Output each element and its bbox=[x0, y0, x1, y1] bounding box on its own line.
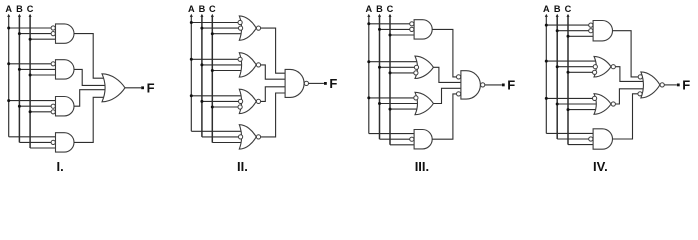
input B arrowhead (panel II) bbox=[200, 14, 203, 17]
junction B tap for II-G2 bbox=[200, 63, 203, 66]
wire B to gate III-G4 input 2 bbox=[380, 138, 410, 140]
input C arrowhead (panel III) bbox=[389, 14, 392, 17]
wire C to gate IV-G3 input 3 bbox=[568, 109, 596, 111]
svg-text:F: F bbox=[147, 80, 155, 95]
wire C to gate II-G4 input 3 bbox=[212, 142, 241, 144]
inverter bubble II-G2 output bbox=[256, 63, 260, 67]
wire final output to F (panel III) bbox=[485, 84, 502, 86]
wire IV-G4 output to final gate input 4 bbox=[613, 94, 640, 139]
wire I-G2 output to final gate input 2 bbox=[74, 69, 105, 85]
gate II-G1 (NOR, 3-input) bbox=[239, 16, 256, 40]
wire C to gate I-G4 input 3 bbox=[30, 147, 55, 149]
junction C tap for I-G3 bbox=[29, 110, 32, 113]
svg-text:A: A bbox=[5, 4, 12, 14]
junction B tap for I-G3 bbox=[18, 105, 21, 108]
inverter bubble II-G1 input 1 bbox=[238, 20, 242, 24]
svg-text:B: B bbox=[554, 4, 561, 14]
wire III-G4 output to final gate input 4 bbox=[432, 94, 456, 139]
gate IV-G1 (AND, 3-input) bbox=[593, 21, 612, 41]
wire B to gate IV-G2 input 2 bbox=[557, 66, 593, 68]
wire C to gate II-G2 input 3 bbox=[212, 70, 241, 72]
svg-text:A: A bbox=[365, 4, 372, 14]
junction B tap for II-G3 bbox=[200, 100, 203, 103]
wire C to gate IV-G4 input 3 bbox=[568, 144, 593, 146]
inverter bubble III-G5 input 1 bbox=[457, 75, 461, 79]
inverter bubble II-G3 output bbox=[256, 99, 260, 103]
junction A tap for II-G3 bbox=[190, 94, 193, 97]
junction A tap for IV-G1 bbox=[545, 24, 548, 27]
wire B vertical rail (panel II) bbox=[201, 15, 203, 137]
wire C to gate II-G1 input 3 bbox=[212, 33, 241, 35]
svg-text:F: F bbox=[329, 76, 337, 91]
input B arrowhead (panel IV) bbox=[556, 14, 559, 17]
svg-text:IV.: IV. bbox=[593, 159, 608, 174]
wire B to gate II-G2 input 2 bbox=[202, 64, 242, 66]
input C arrowhead (panel IV) bbox=[567, 14, 570, 17]
wire III-G3 output to final gate input 3 bbox=[433, 88, 461, 103]
wire A to gate I-G4 input 1 bbox=[9, 136, 56, 138]
wire A to gate II-G1 input 1 bbox=[191, 22, 238, 24]
junction C tap for III-G2 bbox=[389, 71, 392, 74]
wire B to gate III-G3 input 2 bbox=[380, 103, 418, 105]
junction B tap for III-G3 bbox=[378, 102, 381, 105]
junction C tap for II-G2 bbox=[211, 69, 214, 72]
svg-text:A: A bbox=[543, 4, 550, 14]
svg-text:C: C bbox=[27, 4, 34, 14]
gate III-G3 (OR, 3-input) bbox=[415, 92, 433, 114]
svg-text:C: C bbox=[209, 4, 216, 14]
inverter bubble III-G5 output bbox=[481, 83, 485, 87]
junction A tap for IV-G3 bbox=[545, 97, 548, 100]
wire II-G4 output to final gate input 4 bbox=[261, 93, 285, 137]
svg-text:A: A bbox=[188, 4, 195, 14]
wire C to gate IV-G2 input 3 bbox=[568, 71, 593, 73]
wire A to gate I-G3 input 1 bbox=[9, 100, 56, 102]
svg-text:C: C bbox=[387, 4, 394, 14]
junction A tap for IV-G2 bbox=[545, 60, 548, 63]
gate I-G3 (AND, 3-input) bbox=[56, 97, 75, 116]
wire B to gate I-G3 input 2 bbox=[19, 105, 51, 107]
inverter bubble IV-G1 input 2 bbox=[589, 29, 593, 33]
inverter bubble III-G1 input 1 bbox=[410, 22, 414, 26]
gate III-G1 (AND, 3-input) bbox=[414, 20, 432, 39]
wire IV-G2 output to final gate input 2 bbox=[616, 67, 644, 82]
input B arrowhead (panel III) bbox=[378, 14, 381, 17]
inverter bubble IV-G2 output bbox=[611, 65, 615, 69]
junction C tap for IV-G2 bbox=[567, 71, 570, 74]
gate II-G4 (NOR, 3-input) bbox=[239, 125, 256, 149]
wire A vertical rail (panel III) bbox=[368, 15, 370, 134]
inverter bubble I-G1 input 2 bbox=[51, 31, 55, 35]
junction C tap for I-G1 bbox=[29, 38, 32, 41]
wire B to gate I-G4 input 2 bbox=[19, 141, 51, 143]
inverter bubble IV-G5 input 1 bbox=[638, 75, 642, 79]
junction A tap for II-G2 bbox=[190, 58, 193, 61]
gate II-G2 (NOR, 3-input) bbox=[239, 53, 256, 77]
junction A tap for II-G1 bbox=[190, 21, 193, 24]
input A arrowhead (panel II) bbox=[190, 14, 193, 17]
inverter bubble II-G3 input 3 bbox=[238, 105, 242, 109]
inverter bubble I-G2 input 1 bbox=[51, 62, 55, 66]
junction B tap for I-G1 bbox=[18, 32, 21, 35]
junction A tap for I-G1 bbox=[7, 27, 10, 30]
inverter bubble I-G1 input 1 bbox=[51, 26, 55, 30]
wire A vertical rail (panel II) bbox=[190, 15, 192, 131]
junction C tap for II-G3 bbox=[211, 106, 214, 109]
svg-text:III.: III. bbox=[415, 159, 429, 174]
inverter bubble III-G5 input 4 bbox=[457, 92, 461, 96]
inverter bubble I-G3 input 3 bbox=[51, 110, 55, 114]
wire C to gate III-G2 input 3 bbox=[390, 72, 414, 74]
gate II-G3 (NOR, 3-input) bbox=[239, 89, 256, 113]
wire A to gate III-G3 input 1 bbox=[369, 97, 414, 99]
inverter bubble I-G4 input 2 bbox=[51, 140, 55, 144]
wire IV-G3 output to final gate input 3 bbox=[616, 89, 644, 104]
wire final output to F (panel II) bbox=[309, 82, 324, 84]
input A arrowhead (panel I) bbox=[7, 14, 10, 17]
wire A to gate IV-G4 input 1 bbox=[546, 132, 593, 134]
gate IV-G2 (NOR, 3-input) bbox=[594, 56, 611, 77]
wire I-G3 output to final gate input 3 bbox=[74, 90, 105, 107]
inverter bubble II-G4 input 2 bbox=[239, 135, 243, 139]
wire A to gate III-G4 input 1 bbox=[369, 133, 414, 135]
wire IV-G1 output to final gate input 1 bbox=[613, 31, 640, 77]
gate I-G5 final (OR, 4-input) bbox=[102, 74, 125, 102]
wire C to gate I-G2 input 3 bbox=[30, 74, 55, 76]
output arrowhead (panel I) bbox=[141, 86, 144, 89]
junction C tap for IV-G1 bbox=[567, 35, 570, 38]
wire C to gate I-G3 input 3 bbox=[30, 111, 51, 113]
wire B to gate II-G4 input 2 bbox=[202, 136, 239, 138]
wire A to gate IV-G2 input 1 bbox=[546, 60, 595, 62]
output arrowhead (panel III) bbox=[502, 84, 505, 87]
wire A vertical rail (panel IV) bbox=[545, 15, 547, 133]
junction C tap for III-G3 bbox=[389, 108, 392, 111]
wire C vertical rail (panel I) bbox=[29, 15, 31, 148]
junction A tap for I-G2 bbox=[7, 62, 10, 65]
inverter bubble III-G2 input 2 bbox=[414, 65, 418, 69]
wire III-G2 output to final gate input 2 bbox=[433, 67, 461, 82]
inverter bubble II-G3 input 2 bbox=[239, 99, 243, 103]
wire C to gate II-G3 input 3 bbox=[212, 106, 238, 108]
wire A to gate IV-G3 input 1 bbox=[546, 97, 592, 99]
wire A to gate II-G4 input 1 bbox=[191, 130, 241, 132]
inverter bubble III-G4 input 2 bbox=[410, 137, 414, 141]
output arrowhead (panel IV) bbox=[677, 84, 680, 87]
inverter bubble IV-G5 input 4 bbox=[638, 92, 642, 96]
wire II-G3 output to final gate input 3 bbox=[261, 87, 285, 102]
inverter bubble II-G5 output bbox=[304, 81, 308, 85]
wire A to gate I-G1 input 1 bbox=[9, 27, 52, 29]
svg-text:B: B bbox=[16, 4, 23, 14]
wire B vertical rail (panel III) bbox=[379, 15, 381, 139]
wire C vertical rail (panel II) bbox=[211, 15, 213, 143]
wire B to gate IV-G4 input 2 bbox=[557, 138, 589, 140]
wire I-G1 output to final gate input 1 bbox=[74, 34, 104, 79]
inverter bubble IV-G5 output bbox=[660, 83, 664, 87]
wire C vertical rail (panel IV) bbox=[567, 15, 569, 145]
gate IV-G4 (AND, 3-input) bbox=[593, 129, 612, 149]
inverter bubble II-G1 output bbox=[256, 26, 260, 30]
wire final output to F (panel I) bbox=[125, 87, 141, 89]
junction C tap for III-G1 bbox=[389, 34, 392, 37]
inverter bubble IV-G1 input 1 bbox=[589, 23, 593, 27]
junction B tap for III-G1 bbox=[378, 28, 381, 31]
wire C to gate III-G4 input 3 bbox=[390, 144, 414, 146]
input B arrowhead (panel I) bbox=[18, 14, 21, 17]
gate III-G4 (AND, 3-input) bbox=[414, 130, 432, 149]
wire B to gate III-G2 input 2 bbox=[380, 66, 415, 68]
wire B to gate I-G2 input 2 bbox=[19, 68, 55, 70]
gate I-G4 (AND, 3-input) bbox=[56, 133, 75, 152]
svg-text:II.: II. bbox=[237, 159, 248, 174]
junction B tap for II-G1 bbox=[200, 27, 203, 30]
inverter bubble IV-G3 output bbox=[611, 102, 615, 106]
inverter bubble IV-G4 input 2 bbox=[589, 137, 593, 141]
inverter bubble I-G3 input 2 bbox=[51, 104, 55, 108]
inverter bubble III-G3 input 1 bbox=[414, 96, 418, 100]
wire A to gate II-G2 input 1 bbox=[191, 58, 238, 60]
svg-text:B: B bbox=[199, 4, 206, 14]
inverter bubble II-G4 output bbox=[256, 135, 260, 139]
junction A tap for III-G2 bbox=[367, 60, 370, 63]
wire B to gate I-G1 input 2 bbox=[19, 33, 51, 35]
wire A to gate III-G1 input 1 bbox=[369, 23, 410, 25]
junction B tap for IV-G1 bbox=[556, 29, 559, 32]
wire A to gate III-G2 input 1 bbox=[369, 61, 417, 63]
gate II-G5 final (AND (inverting), 4-input) bbox=[285, 69, 304, 97]
inverter bubble IV-G3 input 1 bbox=[593, 96, 597, 100]
wire A to gate II-G3 input 1 bbox=[191, 95, 241, 97]
gate I-G2 (AND, 3-input) bbox=[56, 60, 75, 79]
junction A tap for III-G1 bbox=[367, 22, 370, 25]
wire A vertical rail (panel I) bbox=[8, 15, 10, 137]
svg-text:I.: I. bbox=[57, 159, 64, 174]
wire B to gate II-G1 input 2 bbox=[202, 27, 239, 29]
input A arrowhead (panel III) bbox=[367, 14, 370, 17]
wire B to gate III-G1 input 2 bbox=[380, 28, 410, 30]
junction B tap for III-G2 bbox=[378, 66, 381, 69]
wire B to gate IV-G3 input 2 bbox=[557, 103, 596, 105]
svg-text:B: B bbox=[376, 4, 383, 14]
input C arrowhead (panel I) bbox=[29, 14, 32, 17]
wire B to gate IV-G1 input 2 bbox=[557, 30, 589, 32]
gate III-G2 (OR, 3-input) bbox=[415, 56, 433, 78]
gate I-G1 (AND, 3-input) bbox=[56, 24, 74, 43]
gate IV-G3 (NOR, 3-input) bbox=[594, 94, 611, 115]
inverter bubble IV-G2 input 3 bbox=[593, 70, 597, 74]
gate IV-G5 final (OR (inverting), 4-input) bbox=[641, 72, 660, 98]
wire C to gate III-G1 input 3 bbox=[390, 34, 414, 36]
input A arrowhead (panel IV) bbox=[545, 14, 548, 17]
svg-text:F: F bbox=[507, 77, 515, 92]
wire II-G1 output to final gate input 1 bbox=[261, 28, 285, 73]
junction B tap for IV-G3 bbox=[556, 103, 559, 106]
junction C tap for IV-G3 bbox=[567, 108, 570, 111]
output arrowhead (panel II) bbox=[324, 82, 327, 85]
wire III-G1 output to final gate input 1 bbox=[432, 29, 456, 77]
junction A tap for III-G3 bbox=[367, 96, 370, 99]
svg-text:F: F bbox=[682, 77, 690, 92]
wire B vertical rail (panel I) bbox=[18, 15, 20, 142]
junction B tap for I-G2 bbox=[18, 68, 21, 71]
gate III-G5 final (AND (inverting), 4-input) bbox=[461, 71, 481, 99]
wire C to gate IV-G1 input 3 bbox=[568, 35, 593, 37]
wire B vertical rail (panel IV) bbox=[556, 15, 558, 139]
inverter bubble IV-G2 input 2 bbox=[593, 65, 597, 69]
wire I-G4 output to final gate input 4 bbox=[74, 97, 104, 142]
junction A tap for I-G3 bbox=[7, 99, 10, 102]
wire final output to F (panel IV) bbox=[665, 84, 677, 86]
wire C to gate I-G1 input 3 bbox=[30, 38, 55, 40]
wire B to gate II-G3 input 2 bbox=[202, 100, 239, 102]
junction C tap for II-G1 bbox=[211, 32, 214, 35]
wire C vertical rail (panel III) bbox=[389, 15, 391, 145]
wire A to gate IV-G1 input 1 bbox=[546, 24, 589, 26]
wire C to gate III-G3 input 3 bbox=[390, 108, 417, 110]
junction B tap for IV-G2 bbox=[556, 65, 559, 68]
input C arrowhead (panel II) bbox=[211, 14, 214, 17]
wire A to gate I-G2 input 1 bbox=[9, 63, 52, 65]
wire II-G2 output to final gate input 2 bbox=[261, 65, 285, 79]
inverter bubble II-G1 input 2 bbox=[239, 26, 243, 30]
junction C tap for I-G2 bbox=[29, 74, 32, 77]
inverter bubble III-G2 input 3 bbox=[414, 71, 418, 75]
inverter bubble III-G1 input 2 bbox=[410, 27, 414, 31]
svg-text:C: C bbox=[565, 4, 572, 14]
inverter bubble II-G2 input 1 bbox=[238, 57, 242, 61]
